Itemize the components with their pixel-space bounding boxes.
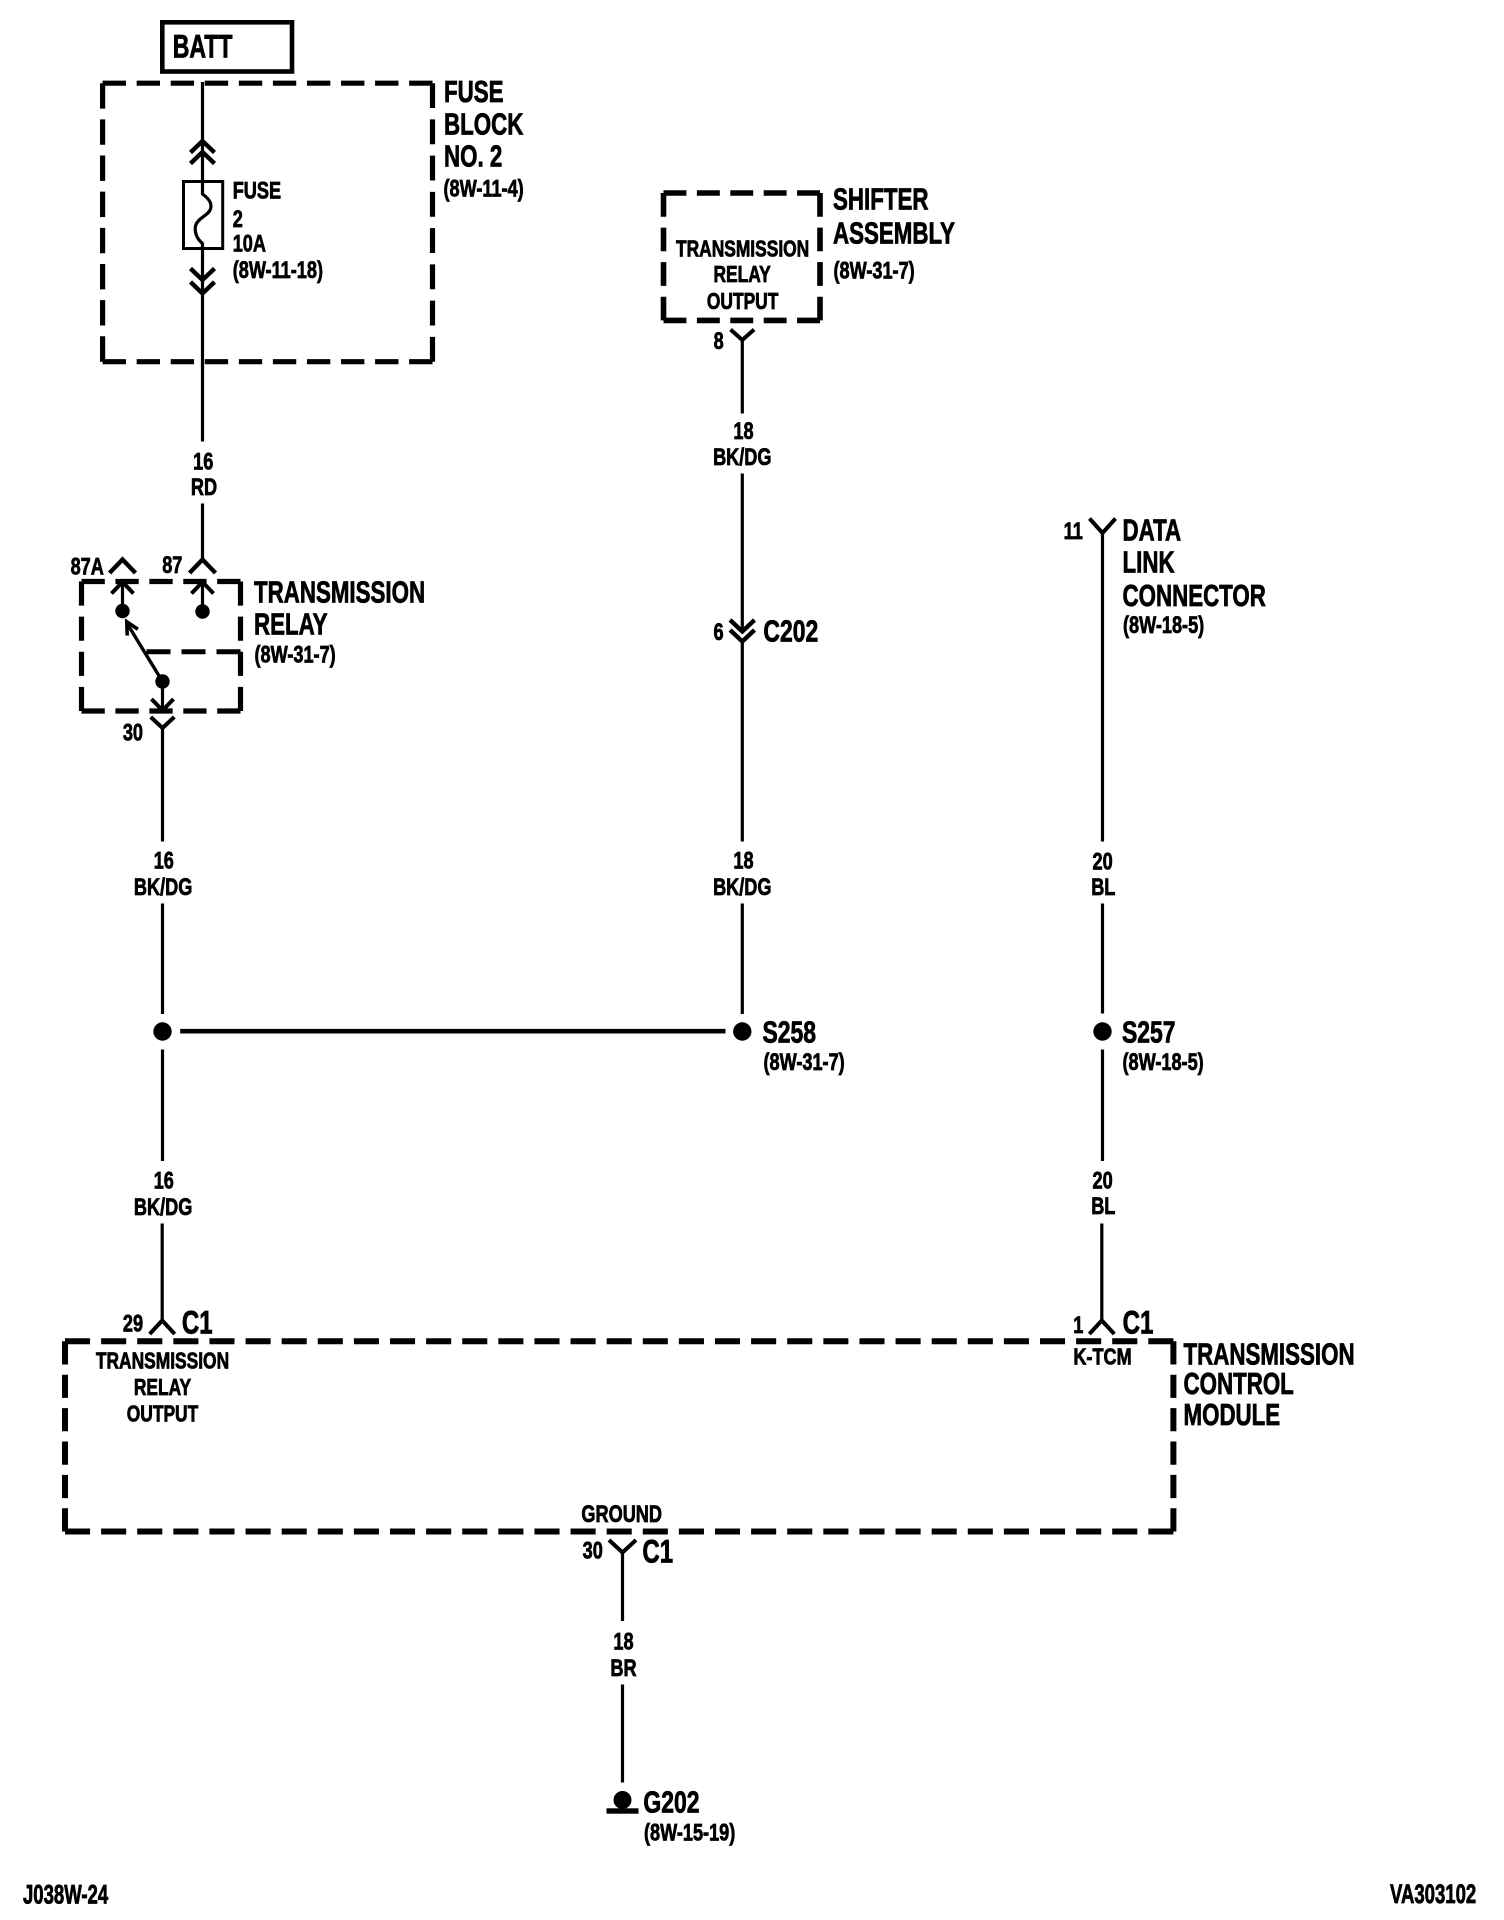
wire to TCM pin 1 xyxy=(1100,1224,1103,1321)
svg-text:S258: S258 xyxy=(763,1014,817,1049)
shifter assembly label xyxy=(833,182,955,284)
svg-text:10A: 10A xyxy=(233,229,266,257)
svg-text:J038W-24: J038W-24 xyxy=(23,1879,108,1909)
wire label 20 BL lower xyxy=(1091,1166,1115,1220)
wire shifter to gap xyxy=(741,340,744,414)
svg-text:8: 8 xyxy=(714,326,724,354)
wire label 16 RD xyxy=(191,447,217,501)
svg-text:MODULE: MODULE xyxy=(1184,1398,1281,1432)
wire to splice S258 xyxy=(741,904,744,1015)
tcm pin 30 connector Y xyxy=(609,1540,636,1553)
pin label 1 C1 xyxy=(1073,1305,1153,1341)
transmission relay box xyxy=(82,582,241,712)
splice S258 dot xyxy=(733,1022,751,1040)
tcm pin 29 connector xyxy=(150,1321,175,1335)
svg-text:BR: BR xyxy=(610,1653,637,1681)
wire BATT to fuse xyxy=(201,82,204,183)
ground G202 label xyxy=(643,1784,735,1846)
svg-text:C1: C1 xyxy=(642,1534,673,1570)
relay coil divider xyxy=(147,649,241,654)
svg-text:30: 30 xyxy=(583,1536,603,1564)
svg-text:G202: G202 xyxy=(643,1784,699,1819)
svg-text:BK/DG: BK/DG xyxy=(134,872,192,900)
svg-text:1: 1 xyxy=(1073,1310,1083,1338)
svg-text:BK/DG: BK/DG xyxy=(713,872,771,900)
svg-text:(8W-31-7): (8W-31-7) xyxy=(834,256,915,284)
transmission relay label xyxy=(254,575,425,668)
wire label 18 BK/DG upper xyxy=(713,416,771,470)
svg-text:87: 87 xyxy=(162,550,182,578)
svg-text:RELAY: RELAY xyxy=(134,1375,191,1401)
wire C202 to gap xyxy=(741,642,744,842)
wire relay 30 down xyxy=(161,728,164,842)
wire to TCM pin 29 xyxy=(161,1224,164,1321)
svg-text:(8W-18-5): (8W-18-5) xyxy=(1123,1047,1204,1075)
connector C202 xyxy=(730,620,754,642)
svg-text:SHIFTER: SHIFTER xyxy=(833,182,928,216)
svg-text:NO. 2: NO. 2 xyxy=(444,139,502,173)
data link connector label xyxy=(1123,513,1266,639)
svg-text:29: 29 xyxy=(123,1309,143,1337)
wire label 16 BK/DG xyxy=(134,846,192,901)
connector chevrons into fuse block xyxy=(191,141,215,164)
svg-text:CONTROL: CONTROL xyxy=(1184,1367,1294,1401)
svg-text:BK/DG: BK/DG xyxy=(713,442,771,470)
svg-text:RD: RD xyxy=(191,472,217,500)
svg-text:S257: S257 xyxy=(1122,1014,1176,1049)
shifter assembly box xyxy=(664,193,821,320)
wire to left junction xyxy=(161,904,164,1015)
svg-text:30: 30 xyxy=(123,718,143,746)
junction dot left xyxy=(153,1022,171,1040)
svg-text:(8W-11-4): (8W-11-4) xyxy=(444,174,524,202)
svg-text:OUTPUT: OUTPUT xyxy=(127,1401,199,1427)
wire label 18 BR xyxy=(610,1627,637,1682)
wire to C202 xyxy=(741,474,744,632)
wire to splice S257 xyxy=(1101,904,1104,1014)
svg-text:20: 20 xyxy=(1093,1166,1113,1194)
fuse block no. 2 label xyxy=(444,74,524,202)
splice S258 label xyxy=(763,1014,845,1076)
svg-text:16: 16 xyxy=(154,1166,174,1194)
wire below S257 xyxy=(1101,1050,1104,1162)
svg-text:GROUND: GROUND xyxy=(581,1499,662,1527)
transmission control module box xyxy=(65,1341,1173,1531)
svg-text:RELAY: RELAY xyxy=(254,607,328,641)
relay pin 87 terminal arrow xyxy=(192,582,214,619)
wire to relay pin 87 xyxy=(201,504,204,561)
shifter box function label xyxy=(676,236,809,315)
splice S257 dot xyxy=(1093,1022,1111,1040)
svg-text:BK/DG: BK/DG xyxy=(134,1192,192,1220)
relay pin 87A connector xyxy=(110,560,136,574)
connector C202 label xyxy=(713,613,818,648)
relay pin 30 terminal xyxy=(152,674,174,710)
svg-text:VA303102: VA303102 xyxy=(1390,1879,1476,1909)
svg-text:18: 18 xyxy=(733,846,753,874)
pin label 29 C1 xyxy=(123,1305,213,1341)
wire DLC down xyxy=(1101,533,1104,842)
wire label 18 BK/DG lower xyxy=(713,846,771,901)
svg-text:BATT: BATT xyxy=(173,28,233,65)
wire below left junction xyxy=(161,1050,164,1162)
splice S257 label xyxy=(1122,1014,1204,1076)
svg-text:18: 18 xyxy=(613,1627,633,1655)
relay switch arm xyxy=(127,622,163,682)
wire TCM ground upper xyxy=(621,1553,624,1622)
transmission control module label xyxy=(1184,1337,1355,1432)
svg-text:87A: 87A xyxy=(71,552,104,580)
shifter pin 8 connector Y xyxy=(731,330,755,341)
svg-text:18: 18 xyxy=(733,416,753,444)
svg-text:CONNECTOR: CONNECTOR xyxy=(1123,578,1266,612)
svg-text:20: 20 xyxy=(1093,847,1113,875)
relay pin 87A terminal arrow xyxy=(112,582,134,618)
connector chevrons below fuse xyxy=(191,269,215,294)
svg-text:K-TCM: K-TCM xyxy=(1073,1344,1131,1370)
svg-text:TRANSMISSION: TRANSMISSION xyxy=(254,575,425,609)
svg-text:TRANSMISSION: TRANSMISSION xyxy=(676,236,809,262)
svg-text:16: 16 xyxy=(193,447,213,475)
svg-text:DATA: DATA xyxy=(1123,513,1182,547)
svg-text:C1: C1 xyxy=(1123,1305,1154,1341)
relay pin 87 connector xyxy=(190,560,216,574)
wire label 16 BK/DG lower xyxy=(134,1166,192,1221)
wire to ground G202 xyxy=(621,1685,624,1783)
svg-text:TRANSMISSION: TRANSMISSION xyxy=(96,1348,229,1374)
svg-text:BL: BL xyxy=(1091,872,1115,900)
svg-text:ASSEMBLY: ASSEMBLY xyxy=(833,216,955,250)
tcm function label transmission relay output xyxy=(96,1348,229,1427)
svg-text:(8W-31-7): (8W-31-7) xyxy=(255,640,336,668)
svg-text:(8W-11-18): (8W-11-18) xyxy=(233,255,323,283)
svg-text:LINK: LINK xyxy=(1123,545,1175,579)
splice wire S258 xyxy=(180,1029,725,1034)
pin label 30 C1 ground xyxy=(583,1534,674,1570)
svg-text:BL: BL xyxy=(1091,1191,1115,1219)
svg-text:FUSE: FUSE xyxy=(444,74,504,108)
svg-text:6: 6 xyxy=(713,617,723,645)
wire fuse to gap xyxy=(201,248,204,442)
svg-text:RELAY: RELAY xyxy=(713,261,770,287)
fuse F2 label xyxy=(233,176,323,284)
svg-text:16: 16 xyxy=(154,846,174,874)
ground G202 symbol xyxy=(607,1791,639,1814)
svg-text:OUTPUT: OUTPUT xyxy=(707,289,779,315)
power node BATT xyxy=(162,22,292,71)
svg-text:(8W-15-19): (8W-15-19) xyxy=(644,1818,735,1846)
svg-text:11: 11 xyxy=(1064,516,1083,544)
fuse F2 10A xyxy=(184,182,223,251)
wire label 20 BL upper xyxy=(1091,847,1115,901)
fuse block no. 2 box xyxy=(103,83,433,362)
relay pin 30 connector Y xyxy=(151,717,175,728)
data link connector pin 11 Y xyxy=(1090,519,1116,534)
svg-text:FUSE: FUSE xyxy=(233,176,281,204)
svg-text:C1: C1 xyxy=(182,1305,213,1341)
svg-text:BLOCK: BLOCK xyxy=(444,107,524,141)
svg-text:(8W-31-7): (8W-31-7) xyxy=(764,1047,845,1075)
svg-text:(8W-18-5): (8W-18-5) xyxy=(1123,610,1204,638)
svg-text:C202: C202 xyxy=(763,613,818,648)
tcm pin 1 connector xyxy=(1089,1321,1114,1335)
